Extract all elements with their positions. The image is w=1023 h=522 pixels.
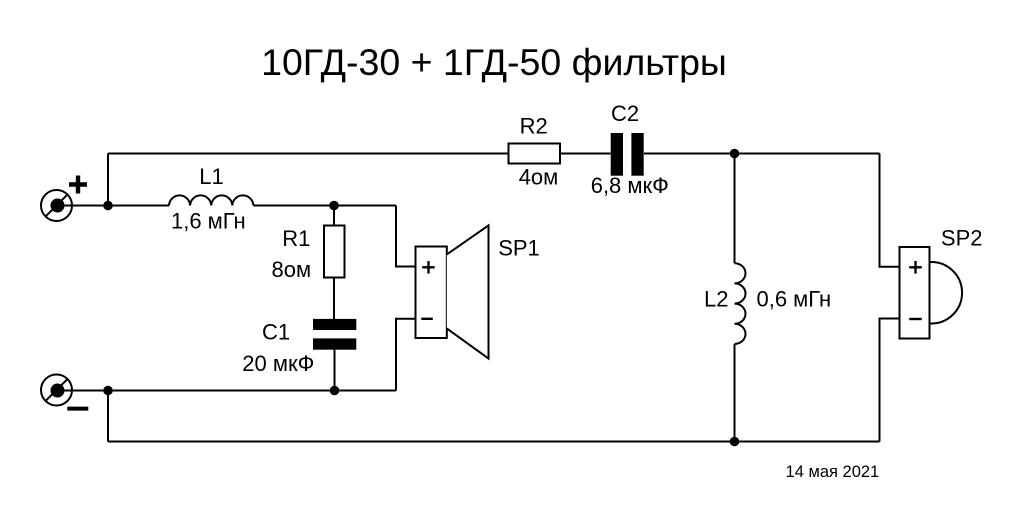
junction node L2 bottom bbox=[730, 437, 740, 447]
svg-text:8ом: 8ом bbox=[271, 257, 311, 282]
svg-text:SP2: SP2 bbox=[941, 226, 983, 251]
capacitor C1 bbox=[313, 319, 356, 350]
speaker SP1 bbox=[416, 247, 447, 339]
capacitor C2 bbox=[611, 133, 644, 176]
wire SP1 minus branch bbox=[396, 319, 416, 391]
svg-text:14 мая 2021: 14 мая 2021 bbox=[786, 463, 880, 481]
resistor R1 bbox=[333, 206, 335, 226]
plus polarity mark bbox=[69, 176, 87, 194]
terminal X1 plus bbox=[41, 190, 72, 221]
junction node C1 bottom bbox=[330, 386, 340, 396]
resistor R2 bbox=[509, 144, 561, 164]
wire SP2 plus branch bbox=[880, 154, 900, 267]
svg-text:1,6 мГн: 1,6 мГн bbox=[171, 209, 246, 234]
svg-text:R2: R2 bbox=[520, 114, 548, 139]
wire left bottom riser bbox=[107, 391, 109, 442]
minus polarity mark bbox=[67, 407, 88, 411]
wire plus terminal to L1 bbox=[58, 205, 170, 207]
wire L1 to SP1 branch corner bbox=[253, 205, 396, 207]
speaker SP2 bbox=[900, 247, 930, 339]
junction node at minus input bbox=[103, 386, 113, 396]
svg-text:20 мкФ: 20 мкФ bbox=[242, 351, 314, 376]
wire bottom rail bbox=[108, 441, 880, 443]
svg-text:L2: L2 bbox=[704, 287, 728, 312]
wire SP1 plus branch bbox=[396, 206, 416, 267]
wire top rail between R2 and C2 bbox=[560, 153, 611, 155]
wire top rail left segment bbox=[108, 153, 509, 155]
svg-text:0,6 мГн: 0,6 мГн bbox=[756, 287, 831, 312]
wire SP2 minus branch bbox=[880, 319, 900, 442]
svg-text:4ом: 4ом bbox=[519, 164, 559, 189]
wire bottom from minus terminal to SP1 branch bbox=[58, 390, 397, 392]
svg-text:C1: C1 bbox=[262, 320, 290, 345]
junction node at plus input bbox=[103, 201, 113, 211]
junction node L2 top bbox=[730, 149, 740, 159]
terminal X2 minus bbox=[41, 375, 72, 406]
svg-text:L1: L1 bbox=[199, 164, 223, 189]
inductor L1 bbox=[169, 195, 253, 205]
wire top rail right segment bbox=[644, 153, 880, 155]
svg-text:C2: C2 bbox=[611, 101, 639, 126]
junction node R1 top bbox=[329, 201, 339, 211]
svg-text:10ГД-30 + 1ГД-50 фильтры: 10ГД-30 + 1ГД-50 фильтры bbox=[261, 41, 727, 83]
svg-text:SP1: SP1 bbox=[498, 236, 540, 261]
wire left riser to top rail bbox=[107, 154, 109, 206]
svg-text:R1: R1 bbox=[282, 226, 310, 251]
svg-text:6,8 мкФ: 6,8 мкФ bbox=[591, 173, 669, 198]
inductor L2 bbox=[734, 154, 736, 264]
